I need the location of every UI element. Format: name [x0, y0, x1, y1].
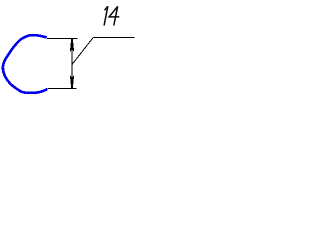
- wire leader shelf: [93, 37, 135, 39]
- arrow top: [70, 39, 74, 53]
- wire vertical dimension line: [71, 39, 73, 89]
- wire bottom extension line: [48, 88, 77, 90]
- dimension text 14: [104, 6, 119, 25]
- wire top extension line: [47, 38, 78, 40]
- wire leader line: [72, 38, 93, 65]
- slot-end arc (selected entity, blue): [3, 35, 47, 93]
- arrow bottom: [70, 75, 74, 89]
